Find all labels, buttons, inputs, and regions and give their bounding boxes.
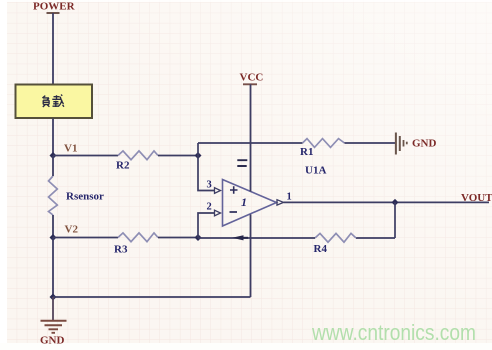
wire R3 to node B <box>158 237 198 239</box>
power bar symbol VCC <box>243 83 257 85</box>
ground symbol GND (bottom left, earth bars) <box>41 321 67 333</box>
label 负载 (drawn glyphs) <box>42 95 64 108</box>
wire R1 to GND bars <box>345 142 396 144</box>
svg-text:R1: R1 <box>300 146 313 158</box>
svg-text:VOUT: VOUT <box>461 192 492 204</box>
node ground junction <box>50 294 57 301</box>
wire bottom rail to op-amp V- <box>53 296 251 298</box>
resistor Rsensor <box>49 176 105 215</box>
svg-text:VCC: VCC <box>240 72 264 84</box>
resistor R1 <box>300 139 345 158</box>
power bar symbol POWER <box>47 12 60 14</box>
net label V2 <box>65 224 79 236</box>
svg-text:V1: V1 <box>64 143 77 155</box>
svg-text:V2: V2 <box>65 224 79 236</box>
resistor R2 <box>116 151 158 172</box>
svg-text:GND: GND <box>40 335 65 347</box>
wire top rail to R1 <box>198 142 303 144</box>
wire feedback down from output node <box>394 202 396 238</box>
svg-text:U1A: U1A <box>305 165 326 177</box>
svg-text:1: 1 <box>241 195 247 209</box>
wire feedback to R4 <box>356 237 395 239</box>
svg-text:POWER: POWER <box>33 1 76 13</box>
op-amp minus mark <box>230 211 238 213</box>
wire node A down to pin 3 <box>198 156 215 191</box>
svg-text:R3: R3 <box>114 244 128 256</box>
wire load box to V1 <box>52 119 54 157</box>
wire POWER to load box <box>52 13 54 84</box>
node B junction (R3/R4/pin2) <box>195 234 202 241</box>
op-amp part number 1 inside <box>241 195 247 209</box>
svg-text:Rsensor: Rsensor <box>66 191 104 203</box>
pin 3 arrow <box>215 188 221 194</box>
svg-text:GND: GND <box>412 138 437 150</box>
op-amp equal marks <box>237 160 247 166</box>
wire R4 to node B <box>198 237 315 239</box>
wire VCC down to op-amp V+ <box>250 84 252 191</box>
net label GND (top right) <box>412 138 437 150</box>
ground symbol GND (top right, vertical bars) <box>396 133 407 155</box>
pin 2 arrow <box>215 210 221 216</box>
wire V1 node to Rsensor to V2 node <box>52 156 54 238</box>
wire node A up to top rail <box>197 143 199 156</box>
wire op-amp V- down to ground rail <box>250 215 252 298</box>
node V1 junction <box>50 152 57 159</box>
op-amp V- pin arrow on wire <box>232 235 248 240</box>
pin 3 label <box>207 180 212 191</box>
resistor R3 <box>114 233 158 256</box>
net label GND (bottom left) <box>40 335 65 347</box>
op-amp U1A body <box>223 180 277 227</box>
net label V1 <box>64 143 77 155</box>
power net VCC label <box>240 72 264 84</box>
wire R2 to node A <box>158 155 198 157</box>
node A junction (R2/R1/pin3) <box>195 152 202 159</box>
node output junction <box>392 199 399 206</box>
svg-text:R2: R2 <box>116 160 130 172</box>
wire V1 to R2 <box>53 155 118 157</box>
svg-text:3: 3 <box>207 180 212 191</box>
pin 2 label <box>207 202 212 213</box>
pin 1 label <box>287 192 292 203</box>
svg-text:1: 1 <box>287 192 292 203</box>
net label VOUT <box>461 192 492 204</box>
resistor R4 <box>314 233 357 255</box>
wire V2 to R3 <box>53 237 118 239</box>
svg-text:R4: R4 <box>314 243 328 255</box>
power port POWER label <box>33 1 76 13</box>
node V2 junction <box>50 234 57 241</box>
wire output to VOUT <box>284 201 490 203</box>
wire stem to ground symbol <box>52 297 54 320</box>
watermark www.cntronics.com <box>311 320 476 345</box>
op-amp plus mark <box>230 186 238 194</box>
wire node B up to pin 2 <box>198 213 215 238</box>
load box 负载 <box>16 85 93 119</box>
designator U1A <box>305 165 326 177</box>
svg-text:www.cntronics.com: www.cntronics.com <box>311 320 476 345</box>
wire V2 rail down to ground junction <box>52 238 54 298</box>
output pin arrow <box>277 200 284 205</box>
svg-text:2: 2 <box>207 202 212 213</box>
